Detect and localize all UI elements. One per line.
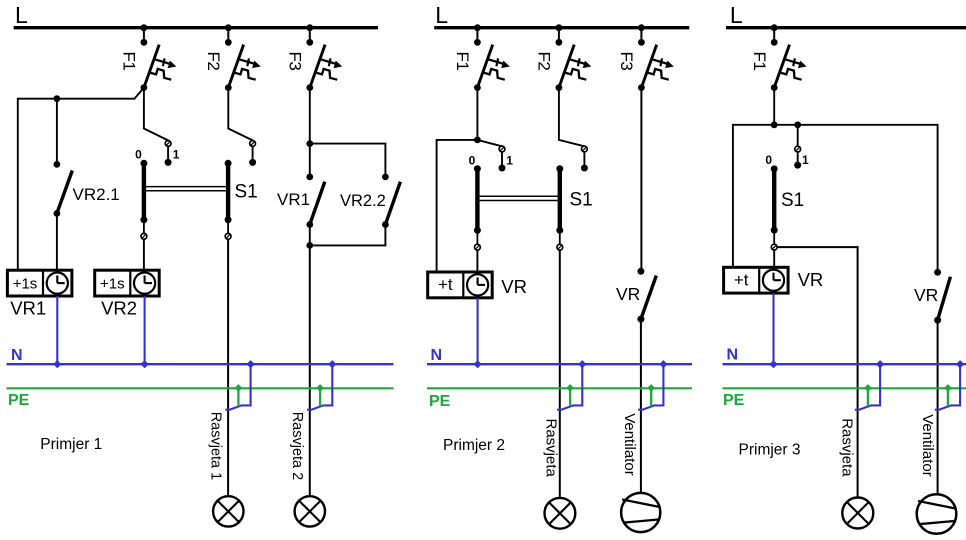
svg-text:+1s: +1s — [100, 275, 125, 292]
node junction pos1 feed (P3) — [794, 121, 801, 128]
terminal S1 pole2 pos1 (P1) — [250, 141, 256, 147]
svg-text:0: 0 — [765, 153, 772, 167]
svg-text:+t: +t — [734, 270, 749, 289]
lamp Rasvjeta (P3) — [842, 498, 873, 529]
wire left rail (P2) — [437, 140, 478, 272]
wire VR2.2 bottom join (P1) — [310, 225, 386, 246]
wire to VR1 contact (P1) — [309, 144, 311, 177]
node N junction VR timer (P2) — [474, 360, 482, 368]
wire N drop to Ventilator (P2) — [638, 364, 663, 410]
fan Ventilator (P3) — [917, 494, 957, 534]
wire N drop to Ventilator (P3) — [935, 364, 960, 410]
wire N drop to Rasvjeta 1 — [225, 364, 250, 410]
switch VR1 contact — [306, 174, 324, 228]
wire L bus (Primjer 2) — [434, 26, 689, 29]
wire right rail to VR contact (P3) — [774, 125, 937, 272]
node S1 pole1 contact-1 (P1) — [165, 159, 172, 166]
node N junction Ventilator (P2) — [659, 360, 667, 368]
terminal S1 pos1 (P3) — [795, 146, 801, 152]
wire N drop to Rasvjeta (P3) — [855, 364, 880, 410]
wire N bus (P2) — [427, 363, 692, 365]
wire L bus (Primjer 1) — [14, 26, 378, 29]
switch S1 pole 2 (P2) — [556, 165, 563, 250]
node junction parallel output (P1) — [306, 242, 313, 249]
switch S1 pole 2 (P1) — [225, 160, 232, 239]
node PE junction Rasvjeta 1 — [235, 384, 243, 392]
svg-text:Primjer 1: Primjer 1 — [40, 436, 102, 453]
wire VR2.1 to timer VR1 (P1) — [56, 213, 58, 270]
wire F1 to S1 position-1 contact (P1) — [144, 88, 168, 144]
node junction F1 rail (P3) — [771, 121, 778, 128]
wire F2 to S1 pole2 pos1 (P1) — [228, 88, 252, 144]
node PE junction Ventilator (P2) — [647, 384, 655, 392]
wire VR contact to Ventilator (P2) — [640, 319, 642, 493]
svg-text:1: 1 — [173, 148, 180, 162]
svg-text:VR1: VR1 — [277, 190, 310, 209]
wire VR timer to N (P3) — [772, 293, 774, 364]
node N junction Rasvjeta 1 — [247, 360, 255, 368]
node N junction VR1 (P1) — [53, 360, 61, 368]
node S1 pole2 contact-1 (P1) — [249, 159, 256, 166]
node S1 pole2 contact-1 (P2) — [581, 165, 588, 172]
svg-text:L: L — [15, 2, 28, 28]
breaker F3 (P1) — [306, 24, 342, 91]
wire N drop to Rasvjeta (P2) — [557, 364, 582, 410]
svg-text:F1: F1 — [453, 52, 472, 71]
breaker F1 (P2) — [474, 24, 510, 91]
lamp Rasvjeta 2 — [295, 496, 325, 526]
node N junction VR timer (P3) — [769, 360, 777, 368]
wire PE stub to Rasvjeta (P3) — [867, 388, 869, 406]
svg-text:F3: F3 — [286, 52, 305, 71]
node N junction VR2 (P1) — [141, 360, 149, 368]
svg-text:PE: PE — [723, 392, 745, 409]
wire junction to S1 pos1 (P3) — [797, 125, 799, 146]
svg-text:N: N — [727, 347, 739, 364]
wire L bus (Primjer 3) — [726, 26, 966, 29]
wire VR1 timer to N (blue) — [56, 296, 58, 364]
wire F2 to S1 pole2 pos1 (P2) — [559, 88, 585, 147]
svg-text:Rasvjeta: Rasvjeta — [542, 419, 559, 478]
switch S1 (P3) — [771, 165, 778, 267]
terminal S1 pole1 pos1 (P2) — [499, 146, 505, 152]
breaker F2 (P2) — [556, 24, 592, 91]
svg-text:0: 0 — [469, 154, 476, 168]
svg-text:VR: VR — [616, 284, 640, 304]
wire to lamp Rasvjeta 2 — [309, 245, 311, 496]
node S1 pole1 contact-1 (P2) — [499, 165, 506, 172]
svg-text:F1: F1 — [120, 52, 139, 71]
wire junction to S1 pos1 (P2) — [477, 140, 502, 146]
wire PE stub to Ventilator (P2) — [650, 388, 652, 406]
svg-text:Rasvjeta: Rasvjeta — [839, 418, 856, 477]
wire F3 down to VR contact (P2) — [640, 88, 642, 272]
wire F3 down (P1) — [309, 88, 311, 144]
svg-text:Rasvjeta 1: Rasvjeta 1 — [208, 412, 224, 481]
svg-text:VR: VR — [914, 285, 938, 305]
svg-text:F1: F1 — [750, 52, 769, 71]
switch VR2.1 — [54, 161, 73, 217]
svg-text:VR2: VR2 — [101, 298, 137, 319]
wire N drop to Rasvjeta 2 — [307, 364, 332, 410]
switch VR contact (P2) — [637, 268, 656, 323]
wire F1 down to junction (P2) — [476, 88, 478, 140]
wire PE bus (P3) — [723, 387, 966, 389]
switch VR contact (P3) — [934, 269, 950, 324]
wire S1 pole2 to lamp Rasvjeta 1 — [227, 239, 229, 496]
terminal S1 pole1 pos1 (P1) — [165, 141, 171, 147]
node PE junction Rasvjeta (P3) — [864, 384, 872, 392]
svg-text:Ventilator: Ventilator — [919, 414, 936, 477]
svg-text:L: L — [730, 2, 743, 28]
svg-text:PE: PE — [8, 392, 30, 409]
wire F1 down to junction (P3) — [773, 88, 775, 125]
svg-text:Ventilator: Ventilator — [621, 413, 638, 476]
wire PE bus (P1) — [7, 387, 394, 389]
node N junction Rasvjeta (P3) — [876, 360, 884, 368]
wire S1 output to lamp branch (P3) — [777, 247, 858, 498]
wire F1 output to left rail (P1) — [18, 88, 144, 271]
wire PE stub to Ventilator (P3) — [947, 388, 949, 406]
node junction F3 parallel split (P1) — [306, 140, 313, 147]
switch S1 pole 1 (P2) — [474, 165, 481, 272]
svg-text:F3: F3 — [617, 52, 636, 71]
node junction left rail / VR2.1 (P1) — [54, 95, 61, 102]
wire S1 pole2 to lamp Rasvjeta (P2) — [559, 250, 561, 498]
svg-text:+1s: +1s — [13, 275, 38, 292]
breaker F1 (P3) — [771, 24, 807, 91]
node N junction Rasvjeta (P2) — [578, 360, 586, 368]
svg-text:N: N — [431, 347, 443, 364]
terminal S1 pole2 pos1 (P2) — [582, 146, 588, 152]
wire N bus (P1) — [7, 363, 394, 365]
wire VR2.1 branch down (P1) — [56, 99, 58, 165]
node PE junction Rasvjeta 2 — [316, 384, 324, 392]
svg-text:VR: VR — [798, 269, 824, 290]
node S1 contact-1 (P3) — [794, 162, 801, 169]
linkage S1 (P2) — [479, 196, 557, 200]
wire VR1 bottom join (P1) — [309, 225, 311, 246]
wire PE stub to Rasvjeta 1 — [237, 388, 239, 406]
linkage S1 (P1) — [146, 187, 226, 191]
svg-text:S1: S1 — [235, 182, 258, 203]
timer relay VR1 box (+1s) — [7, 270, 72, 296]
wire VR timer to N (P2) — [477, 298, 479, 364]
wire N bus (P3) — [723, 363, 966, 365]
node PE junction Rasvjeta (P2) — [566, 384, 574, 392]
fan Ventilator (P2) — [621, 493, 660, 532]
svg-text:VR2.2: VR2.2 — [340, 192, 386, 210]
svg-text:1: 1 — [802, 153, 809, 167]
wire PE bus (P2) — [427, 387, 692, 389]
svg-text:Primjer 3: Primjer 3 — [739, 442, 801, 459]
node N junction Ventilator (P3) — [956, 360, 964, 368]
svg-text:S1: S1 — [570, 190, 593, 211]
svg-text:+t: +t — [438, 275, 453, 294]
svg-text:F2: F2 — [204, 52, 223, 71]
svg-text:1: 1 — [506, 154, 513, 168]
svg-text:0: 0 — [135, 148, 142, 162]
wire left rail (P3) — [733, 125, 774, 267]
svg-text:Primjer 2: Primjer 2 — [443, 437, 505, 454]
wire PE stub to Rasvjeta (P2) — [569, 388, 571, 406]
timer relay VR2 box (+1s) — [95, 270, 160, 296]
breaker F2 (P1) — [225, 24, 261, 91]
svg-text:Rasvjeta 2: Rasvjeta 2 — [289, 412, 305, 481]
timer relay VR box (+t) (P3) — [724, 267, 789, 293]
svg-text:N: N — [11, 347, 23, 364]
wire to VR2.2 branch (P1) — [310, 144, 386, 177]
lamp Rasvjeta (P2) — [545, 498, 576, 529]
timer relay VR box (+t) (P2) — [428, 272, 493, 298]
svg-text:S1: S1 — [781, 190, 804, 211]
wire VR2 timer to N (blue) — [144, 296, 146, 364]
lamp Rasvjeta 1 — [213, 496, 243, 526]
svg-text:F2: F2 — [535, 52, 554, 71]
node PE junction Ventilator (P3) — [944, 384, 952, 392]
node junction F1 / left rail (P2) — [474, 137, 481, 144]
node N junction Rasvjeta 2 — [328, 360, 336, 368]
breaker F1 (P1) — [141, 24, 177, 91]
breaker F3 (P2) — [638, 24, 674, 91]
svg-text:VR: VR — [501, 276, 527, 297]
switch VR2.2 contact — [382, 174, 400, 228]
svg-text:L: L — [435, 2, 448, 28]
switch S1 pole 1 (P1) — [140, 160, 147, 270]
svg-text:VR2.1: VR2.1 — [73, 185, 120, 204]
wire VR contact to Ventilator (P3) — [937, 320, 939, 494]
svg-text:VR1: VR1 — [10, 298, 46, 319]
wire PE stub to Rasvjeta 2 — [319, 388, 321, 406]
svg-text:PE: PE — [429, 393, 451, 410]
